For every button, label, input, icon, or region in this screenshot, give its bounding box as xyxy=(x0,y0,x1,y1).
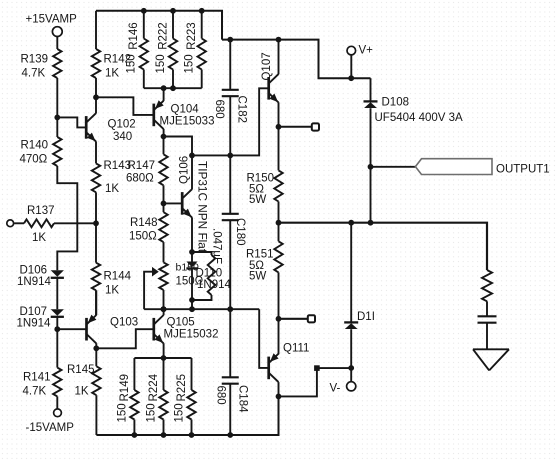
diode D107 1N914 xyxy=(17,306,64,330)
junction midrail-D110 xyxy=(189,306,195,312)
resistor R148 150 xyxy=(129,203,168,242)
resistor R143 1K xyxy=(92,160,131,195)
svg-text:R141: R141 xyxy=(23,372,51,384)
svg-text:MJE15032: MJE15032 xyxy=(164,329,219,341)
wire input to R137 xyxy=(14,222,24,224)
resistor R140 470 xyxy=(20,137,62,166)
svg-text:R148: R148 xyxy=(130,217,158,229)
svg-text:R225: R225 xyxy=(176,374,188,402)
junction node B1 xyxy=(54,115,60,121)
svg-text:Q104: Q104 xyxy=(171,104,200,116)
wire Q104 emitter xyxy=(163,88,165,101)
terminal pad E2 xyxy=(308,315,315,322)
resistor R146 150 xyxy=(126,22,148,73)
svg-text:150: 150 xyxy=(155,54,167,73)
power terminal +15VAMP xyxy=(26,14,78,37)
resistor R150 5W xyxy=(247,127,283,223)
junction rail2-Q107 xyxy=(276,37,282,43)
terminal pad E1 xyxy=(312,123,319,130)
svg-text:R137: R137 xyxy=(27,205,55,217)
wire output rail xyxy=(279,223,488,270)
resistor R223 150 xyxy=(184,22,206,73)
junction R151-Q111 node xyxy=(276,316,282,322)
svg-text:D106: D106 xyxy=(20,265,48,277)
port OUTPUT1 xyxy=(415,159,549,176)
wire Q111 collector xyxy=(278,382,280,396)
wire emitter rail of Q104 xyxy=(144,87,202,89)
wire output to flag xyxy=(371,166,416,168)
wire R223 top xyxy=(201,11,203,39)
svg-text:R149: R149 xyxy=(119,374,131,402)
svg-text:680: 680 xyxy=(213,100,225,119)
diode D110 1N914 xyxy=(176,252,232,300)
junction node VAS xyxy=(161,134,167,140)
svg-text:Q105: Q105 xyxy=(167,317,195,329)
resistor R137 1K xyxy=(24,205,55,244)
svg-text:R222: R222 xyxy=(157,22,169,50)
svg-text:680Ω: 680Ω xyxy=(126,173,154,185)
wire Q103 to R145 xyxy=(95,348,97,366)
svg-text:5W: 5W xyxy=(249,194,266,206)
power terminal V- xyxy=(330,368,356,395)
svg-text:150: 150 xyxy=(173,403,185,422)
wire R222 bottom xyxy=(172,70,174,89)
wire node B1 to Q102 base xyxy=(57,117,85,127)
wire D110 to mid rail xyxy=(191,300,193,309)
junction D110 bottom xyxy=(189,297,195,303)
resistor R142 1K xyxy=(92,49,131,80)
svg-text:R224: R224 xyxy=(148,373,160,401)
junction botrail-C184 xyxy=(227,432,233,438)
wire bias line xyxy=(192,154,230,156)
wire mid rail xyxy=(144,308,259,310)
junction Q106 base node xyxy=(161,201,167,207)
wire D108 to out rail xyxy=(370,167,372,223)
junction botrail-R225 xyxy=(189,432,195,438)
capacitor C184 680 xyxy=(214,309,248,435)
wire R145 to bottom rail xyxy=(95,395,97,435)
wire Q102 collector xyxy=(95,97,97,113)
junction botrail-R224 xyxy=(161,432,167,438)
wire Q102 emitter to R143 xyxy=(95,141,97,163)
resistor R145 1K xyxy=(67,364,101,398)
wire R141 to -15VAMP xyxy=(56,396,58,408)
svg-text:+15VAMP: +15VAMP xyxy=(26,14,78,26)
wire VAS to bias line xyxy=(164,137,193,156)
svg-text:1K: 1K xyxy=(105,68,119,80)
svg-text:R147: R147 xyxy=(128,160,156,172)
resistor R225 150 xyxy=(173,358,195,435)
svg-text:Q106: Q106 xyxy=(179,156,191,184)
wire Q105 collector xyxy=(163,309,165,315)
transistor Q102 xyxy=(86,113,135,143)
wire Q106 collector xyxy=(191,155,193,189)
svg-text:R140: R140 xyxy=(21,140,49,152)
wire Q103 emitter xyxy=(95,290,97,315)
junction node C1 xyxy=(93,94,99,100)
wire emitter test lead xyxy=(279,126,312,128)
svg-text:V+: V+ xyxy=(359,45,374,57)
diode D1I xyxy=(344,223,375,368)
svg-text:1K: 1K xyxy=(105,183,119,195)
wire Q111 emitter xyxy=(278,319,280,355)
svg-text:R151: R151 xyxy=(246,249,274,261)
wire bottom trio rail xyxy=(134,357,191,359)
junction trio rail node xyxy=(161,355,167,361)
resistor R144 1K xyxy=(92,263,132,297)
junction Q107 emitter node xyxy=(276,124,282,130)
junction bias-C182 xyxy=(227,153,233,159)
wire D107 to R141 xyxy=(56,317,58,368)
svg-text:1K: 1K xyxy=(105,285,119,297)
svg-text:D1I: D1I xyxy=(357,311,375,323)
junction node NB xyxy=(54,326,60,332)
wire node NB to Q103 base xyxy=(57,328,86,330)
wire node IN to R144 xyxy=(95,223,97,262)
capacitor C180 .047uF xyxy=(211,155,246,309)
diode D106 1N914 xyxy=(17,265,64,289)
wire R143 to node IN xyxy=(95,192,97,223)
junction rail-R146 xyxy=(141,8,147,14)
wire R146 bottom xyxy=(143,70,145,89)
junction outrail-D108 xyxy=(368,220,374,226)
svg-text:R139: R139 xyxy=(21,54,49,66)
transistor Q111 xyxy=(269,343,310,383)
wire Q105 emitter xyxy=(163,343,165,358)
junction botrail-R149 xyxy=(132,432,138,438)
junction R222 bottom xyxy=(170,85,176,91)
junction Q104 emitter node xyxy=(161,85,167,91)
trimmer bias resistor xyxy=(159,242,167,309)
capacitor load xyxy=(478,316,497,349)
svg-text:1N914: 1N914 xyxy=(17,276,51,288)
corner marker V- jog xyxy=(314,365,320,371)
input terminal xyxy=(7,220,14,227)
transistor Q104 xyxy=(154,100,215,129)
wire R146 top xyxy=(143,11,145,39)
resistor D110 parallel 150 xyxy=(192,252,215,300)
svg-text:V-: V- xyxy=(330,383,341,395)
svg-text:R146: R146 xyxy=(128,22,140,50)
junction V- node xyxy=(348,365,354,371)
wire R222 top xyxy=(172,11,174,39)
wire R142 to node C1 xyxy=(95,78,97,97)
capacitor C182 680 xyxy=(213,40,247,156)
wire Q107 emitter xyxy=(278,102,280,127)
svg-text:Q102: Q102 xyxy=(108,119,136,131)
svg-text:1K: 1K xyxy=(75,386,89,398)
trimmer wiper arrow xyxy=(144,267,159,309)
wire Q103 collector xyxy=(95,343,97,348)
svg-text:Q103: Q103 xyxy=(110,317,138,329)
svg-text:-15VAMP: -15VAMP xyxy=(26,422,75,434)
svg-text:Q107: Q107 xyxy=(261,52,273,80)
svg-text:D107: D107 xyxy=(20,306,48,318)
power terminal -15VAMP xyxy=(26,409,75,434)
wire D106 to D107 xyxy=(56,278,58,309)
junction rail2-C182 xyxy=(227,37,233,43)
junction bias-Q106C xyxy=(189,153,195,159)
svg-text:150: 150 xyxy=(184,54,196,73)
svg-text:150: 150 xyxy=(126,54,138,73)
svg-text:R223: R223 xyxy=(186,22,198,50)
ground xyxy=(473,349,509,370)
svg-text:C184: C184 xyxy=(236,385,248,413)
junction D110 top xyxy=(189,249,195,255)
svg-text:1N914: 1N914 xyxy=(17,318,51,330)
resistor R224 150 xyxy=(145,358,167,435)
wire emitter test lead 2 xyxy=(279,318,309,320)
transistor Q106 xyxy=(179,156,210,253)
wire Q103C to Q105 base xyxy=(96,329,154,348)
junction midrail-R148 xyxy=(161,306,167,312)
wire bottom rail xyxy=(96,396,278,435)
wire Q106 emitter xyxy=(191,217,193,252)
svg-text:680: 680 xyxy=(214,386,226,405)
resistor R141 4.7K xyxy=(23,368,62,398)
junction output node xyxy=(368,164,374,170)
wire R223 bottom xyxy=(201,70,203,89)
resistor R139 4.7K xyxy=(21,49,62,80)
svg-text:UF5404 400V 3A: UF5404 400V 3A xyxy=(375,112,464,124)
junction outrail-R150 xyxy=(276,220,282,226)
wire R144 to Q103 emitter xyxy=(95,290,97,315)
transistor Q103 xyxy=(87,315,139,344)
svg-text:470Ω: 470Ω xyxy=(20,154,48,166)
svg-text:4.7K: 4.7K xyxy=(22,68,46,80)
svg-text:Q111: Q111 xyxy=(283,343,309,355)
junction Q111 collector node xyxy=(276,394,282,400)
wire R139 to node B1 xyxy=(56,78,58,137)
junction outrail-D1I xyxy=(348,220,354,226)
transistor Q107 xyxy=(261,52,278,102)
junction V+ node xyxy=(348,75,354,81)
wire V- jog xyxy=(279,368,352,396)
resistor load xyxy=(482,270,492,316)
wire top rail V+ row xyxy=(96,11,222,40)
wire Q106 base xyxy=(164,202,183,204)
svg-text:C182: C182 xyxy=(235,96,247,124)
svg-text:340: 340 xyxy=(113,131,132,143)
resistor R151 5W xyxy=(246,223,283,319)
wire +15VAMP to R139 xyxy=(56,37,58,50)
svg-text:MJE15033: MJE15033 xyxy=(160,116,215,128)
resistor R149 150 xyxy=(116,358,138,435)
junction rail-R223 xyxy=(199,8,205,14)
svg-text:R144: R144 xyxy=(104,271,132,283)
junction midrail-Q105 xyxy=(161,306,167,312)
svg-text:4.7K: 4.7K xyxy=(23,386,47,398)
wire Q107 collector xyxy=(278,40,280,75)
wire R137 to node IN xyxy=(54,222,96,224)
wire second rail xyxy=(222,40,371,79)
wire node C1 to Q104 base xyxy=(96,97,154,115)
junction midrail-C180 xyxy=(227,306,233,312)
resistor R147 680 xyxy=(126,137,168,204)
transistor Q105 xyxy=(154,315,219,343)
svg-text:D108: D108 xyxy=(382,96,410,108)
junction rail-R222 xyxy=(170,8,176,14)
junction Q103 collector node xyxy=(93,345,99,351)
svg-text:150: 150 xyxy=(116,403,128,422)
svg-text:1K: 1K xyxy=(32,232,46,244)
power terminal V+ xyxy=(347,45,373,79)
svg-text:5W: 5W xyxy=(249,271,266,283)
svg-text:C180: C180 xyxy=(234,218,246,246)
wire bias line to Q107 base xyxy=(230,88,268,155)
svg-text:150Ω: 150Ω xyxy=(129,231,157,243)
svg-text:R145: R145 xyxy=(67,364,95,376)
wire Q104 collector xyxy=(163,129,165,137)
svg-text:TIP31C NPN Flat: TIP31C NPN Flat xyxy=(195,161,209,253)
wire rail to R142 xyxy=(95,11,97,49)
resistor R222 150 xyxy=(155,22,177,73)
svg-text:150: 150 xyxy=(145,403,157,422)
svg-text:.047µF: .047µF xyxy=(211,228,223,264)
diode D108 UF5404 xyxy=(364,78,464,167)
wire midrail to Q111 base xyxy=(259,309,269,368)
svg-text:OUTPUT1: OUTPUT1 xyxy=(496,164,550,176)
wire R140 jog to D106 xyxy=(57,166,77,270)
junction node IN xyxy=(93,220,99,226)
